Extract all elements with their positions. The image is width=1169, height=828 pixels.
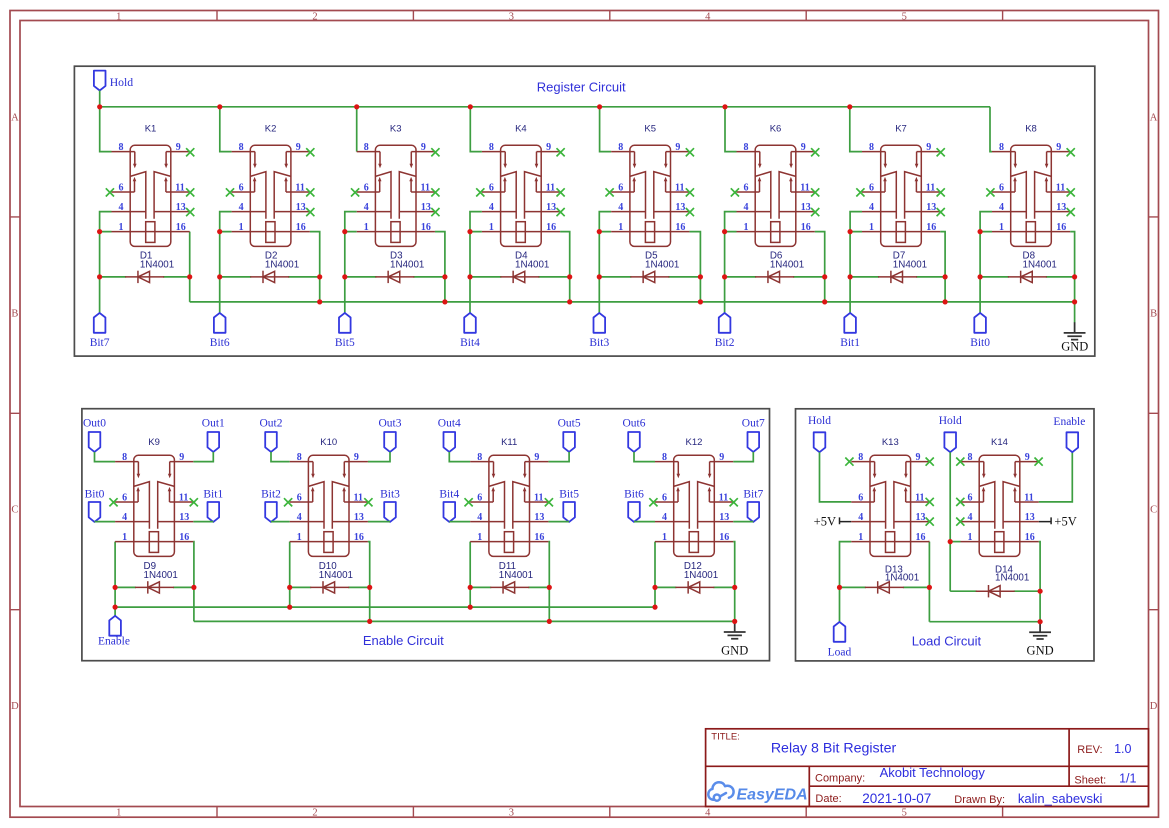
wire K3 pin4-pin1 link: [345, 212, 357, 232]
svg-text:Enable: Enable: [1053, 416, 1085, 428]
svg-text:Out1: Out1: [202, 417, 225, 429]
no-connect X K3 pins 6,9,11,13: [351, 148, 440, 216]
frame column ticks: [217, 11, 1003, 818]
wire rail feed to K1 pin 8: [100, 107, 112, 152]
svg-text:1N4001: 1N4001: [885, 573, 919, 584]
wire rail feed to K8 pin 8: [990, 107, 992, 152]
wire K3 pin16 to D3 cathode and rail: [435, 232, 445, 302]
wire K4 pin16 to D4 cathode and rail: [560, 232, 570, 302]
wire D1 row: [100, 276, 127, 278]
wire Out5 to K11 pin 9: [548, 452, 569, 462]
svg-text:Out0: Out0: [83, 417, 106, 429]
net flag Hold (load middle): [939, 415, 962, 452]
net flag Bit3: [589, 313, 609, 349]
svg-text:Out6: Out6: [623, 417, 646, 429]
wire K13 pin16 to D13 cathode / gnd rail: [928, 542, 930, 622]
junction dots enable gnd rail: [367, 619, 737, 624]
label D2 1N4001: [265, 251, 299, 271]
svg-text:K8: K8: [1025, 124, 1037, 135]
diode D9: [135, 581, 174, 593]
svg-text:2021-10-07: 2021-10-07: [862, 791, 931, 806]
power flag +5V (K13 pin 4): [814, 514, 852, 528]
wire K2 pin1 to D2 anode / Bit6: [219, 232, 221, 313]
wire K4 pin4-pin1 link: [470, 212, 482, 232]
wire D12 row: [655, 586, 676, 588]
wire K13 pin1 to D13 anode / Load flag: [840, 542, 852, 622]
svg-text:Company:: Company:: [815, 772, 865, 784]
svg-text:Out3: Out3: [379, 417, 402, 429]
svg-text:Out5: Out5: [558, 417, 581, 429]
no-connect X K6 pins 6,9,11,13: [731, 148, 820, 216]
wire Bit0 to K9 pin 4: [95, 521, 116, 523]
svg-text:GND: GND: [721, 644, 748, 658]
EasyEDA logo: [708, 782, 807, 803]
junction dots enable rail: [113, 605, 658, 610]
net flag Bit7: [743, 489, 763, 522]
svg-text:1: 1: [116, 808, 121, 819]
register circuit box: [74, 66, 1094, 356]
svg-text:1N4001: 1N4001: [515, 260, 549, 271]
wire Out1 to K9 pin 9: [193, 452, 213, 462]
svg-text:Bit2: Bit2: [261, 489, 281, 501]
wire D4 row: [470, 276, 501, 278]
wire K12 pin16 to D12 cathode / gnd rail: [733, 542, 735, 622]
net flag Bit3: [380, 489, 400, 522]
wire K14 pin16 to D14 cathode / gnd: [1039, 542, 1040, 622]
diode D12: [675, 581, 714, 593]
svg-text:K10: K10: [320, 437, 337, 448]
net flag Enable (enable circuit input): [98, 616, 130, 648]
no-connect X K10 pins 6,11: [284, 498, 373, 506]
diode D10: [310, 581, 349, 593]
svg-text:K3: K3: [390, 124, 402, 135]
wire K6 pin4-pin1 link: [725, 212, 737, 232]
svg-text:K13: K13: [882, 437, 899, 448]
relay K1: [112, 142, 190, 246]
diode D11: [490, 581, 529, 593]
wire K5 pin1 to D5 anode / Bit3: [598, 232, 600, 313]
svg-text:Enable Circuit: Enable Circuit: [363, 633, 444, 648]
wire K8 pin4-pin1 link: [980, 212, 992, 232]
svg-text:Bit2: Bit2: [715, 337, 735, 349]
net flag Bit1: [840, 313, 860, 349]
junction dots register bottom rail: [317, 299, 1077, 304]
wire Bit6 to K12 pin 4: [634, 521, 655, 523]
wire K12 pin1 to D12 anode / enable rail: [654, 542, 656, 608]
power flag +5V (K14 pin 13): [1039, 514, 1077, 528]
relay K8: [992, 142, 1070, 246]
net flag Out0: [83, 417, 106, 452]
wire Hold middle vertical to D14: [949, 452, 951, 591]
label D13 1N4001: [885, 564, 919, 583]
net flag Bit7: [90, 313, 110, 349]
wire K10 pin1 to D10 anode / enable rail: [289, 542, 291, 608]
svg-text:1N4001: 1N4001: [144, 570, 178, 581]
svg-text:REV:: REV:: [1077, 744, 1102, 756]
svg-text:2: 2: [312, 12, 317, 23]
label D12 1N4001: [684, 561, 718, 581]
svg-text:Bit4: Bit4: [460, 337, 480, 349]
svg-text:Hold: Hold: [939, 415, 962, 427]
wire K9 pin1 to D9 anode / enable rail: [114, 542, 116, 608]
label D4 1N4001: [515, 251, 549, 271]
net flag Bit2: [261, 489, 281, 522]
svg-text:EasyEDA: EasyEDA: [737, 786, 808, 803]
svg-text:D: D: [11, 701, 19, 712]
junction dots on hold rail: [97, 104, 852, 109]
no-connect X K1 pins 6,9,11,13: [106, 148, 194, 216]
diode D4: [500, 271, 539, 283]
wire rail feed to K5 pin 8: [600, 107, 612, 152]
svg-text:Register Circuit: Register Circuit: [537, 80, 626, 95]
wire D5 row: [599, 276, 631, 278]
net flag Out4: [438, 417, 461, 452]
wire K8 pin16 to D8 cathode and rail: [1070, 232, 1074, 302]
svg-text:4: 4: [705, 808, 711, 819]
svg-text:Out7: Out7: [742, 417, 765, 429]
label D6 1N4001: [770, 251, 804, 271]
svg-text:1N4001: 1N4001: [645, 260, 679, 271]
label D9 1N4001: [144, 561, 178, 581]
net flag Out3: [379, 417, 402, 452]
wire K11 pin16 to D11 cathode / gnd rail: [547, 542, 550, 622]
svg-text:1N4001: 1N4001: [995, 573, 1029, 584]
net flag Enable (load circuit): [1053, 416, 1085, 452]
svg-text:Bit1: Bit1: [840, 337, 860, 349]
wire Bit2 to K10 pin 4: [271, 521, 290, 523]
net flag Hold (register input): [94, 71, 133, 91]
wire K14 pin1 to Hold column: [950, 541, 960, 543]
svg-text:Out4: Out4: [438, 417, 461, 429]
svg-text:Akobit Technology: Akobit Technology: [880, 765, 986, 780]
wire K5 pin4-pin1 link: [599, 212, 611, 232]
net flag Bit4: [460, 313, 480, 349]
wire Bit5 to K11 pin 13: [548, 521, 569, 523]
diode D8: [1008, 271, 1047, 283]
net flag Bit6: [624, 489, 644, 522]
wire Out3 to K10 pin 9: [368, 452, 390, 462]
junction dots register diode row: [97, 274, 1077, 279]
label D14 1N4001: [995, 564, 1029, 583]
no-connect X K12 pins 6,11: [649, 498, 738, 506]
no-connect X K5 pins 6,9,11,13: [606, 148, 695, 216]
wire rail feed to K7 pin 8: [850, 107, 862, 152]
diode D14: [976, 585, 1015, 597]
relay K12: [655, 452, 733, 556]
no-connect X K2 pins 6,9,11,13: [226, 148, 315, 216]
wire Bit4 to K11 pin 4: [449, 521, 470, 523]
svg-text:1N4001: 1N4001: [265, 260, 299, 271]
wire load gnd rail: [929, 621, 1040, 623]
label D11 1N4001: [499, 561, 533, 581]
ground GND (enable): [721, 621, 748, 657]
svg-text:1.0: 1.0: [1114, 742, 1131, 756]
svg-text:1N4001: 1N4001: [684, 570, 718, 581]
diode D2: [250, 271, 289, 283]
svg-text:1N4001: 1N4001: [1023, 260, 1057, 271]
net flag Out6: [623, 417, 646, 452]
wire K11 pin1 to D11 anode / enable rail: [469, 542, 471, 608]
diode D7: [878, 271, 917, 283]
wire D7 row: [850, 276, 879, 278]
svg-text:1: 1: [116, 12, 121, 23]
relay K14: [961, 452, 1039, 556]
svg-text:C: C: [1150, 505, 1157, 516]
svg-text:Bit3: Bit3: [380, 489, 400, 501]
net flag Bit5: [335, 313, 355, 349]
wire D13 row: [840, 586, 866, 588]
wire K1 pin16 to D1 cathode and rail: [189, 232, 191, 302]
svg-text:1N4001: 1N4001: [140, 260, 174, 271]
svg-text:Load Circuit: Load Circuit: [912, 634, 982, 649]
no-connect X K11 pins 6,11: [465, 498, 554, 506]
net flag Bit0: [970, 313, 990, 349]
wire K3 pin1 to D3 anode / Bit5: [344, 232, 346, 313]
svg-text:1N4001: 1N4001: [390, 260, 424, 271]
svg-text:Bit4: Bit4: [439, 489, 459, 501]
svg-text:A: A: [11, 113, 19, 124]
relay K10: [290, 452, 368, 556]
svg-text:K7: K7: [895, 124, 907, 135]
wire Out0 to K9 pin 8: [95, 452, 116, 462]
svg-text:2: 2: [312, 808, 317, 819]
wire K2 pin16 to D2 cathode and rail: [310, 232, 320, 302]
relay K9: [115, 452, 193, 556]
wire D6 row: [725, 276, 757, 278]
wire D8 row: [980, 276, 1009, 278]
title block dividers: [706, 729, 1149, 807]
net flag Bit1: [203, 489, 223, 522]
diode D3: [375, 271, 414, 283]
wire D9 row: [115, 586, 136, 588]
svg-text:Enable: Enable: [98, 635, 130, 647]
svg-text:1N4001: 1N4001: [319, 570, 353, 581]
diode D6: [755, 271, 794, 283]
ground GND (load): [1027, 622, 1054, 658]
svg-text:B: B: [1150, 309, 1157, 320]
net flag Bit6: [210, 313, 230, 349]
svg-text:Bit0: Bit0: [85, 489, 105, 501]
enable circuit box: [82, 409, 770, 661]
label D7 1N4001: [893, 251, 927, 271]
wire K6 pin1 to D6 anode / Bit2: [724, 232, 726, 313]
wire rail feed to K2 pin 8: [220, 107, 232, 152]
svg-text:A: A: [1150, 113, 1158, 124]
svg-text:TITLE:: TITLE:: [711, 732, 740, 743]
no-connect X K8 pins 6,9,11,13: [986, 148, 1074, 216]
svg-text:K6: K6: [770, 124, 782, 135]
svg-text:Bit1: Bit1: [203, 489, 223, 501]
svg-text:Bit3: Bit3: [589, 337, 609, 349]
wire Out2 to K10 pin 8: [271, 452, 290, 462]
wire K7 pin1 to D7 anode / Bit1: [849, 232, 851, 313]
wire Out7 to K12 pin 9: [733, 452, 753, 462]
diode D13: [865, 581, 904, 593]
svg-text:Bit7: Bit7: [743, 489, 763, 501]
wire K1 pin1 to D1 anode / Bit7: [99, 232, 101, 313]
label D8 1N4001: [1023, 251, 1057, 271]
ground GND (register): [1061, 322, 1088, 353]
title block outline: [706, 729, 1149, 807]
wire K4 pin1 to D4 anode / Bit4: [469, 232, 471, 313]
svg-text:K12: K12: [686, 437, 703, 448]
wire Bit7 to K12 pin 13: [733, 521, 753, 523]
wire K2 pin4-pin1 link: [220, 212, 232, 232]
svg-text:Bit5: Bit5: [335, 337, 355, 349]
net flag Out5: [558, 417, 581, 452]
svg-text:Relay 8 Bit Register: Relay 8 Bit Register: [771, 741, 897, 757]
svg-text:3: 3: [509, 808, 514, 819]
junction dots enable diode row: [113, 585, 738, 590]
junction dots register pin1 column: [97, 229, 983, 234]
svg-text:4: 4: [705, 12, 711, 23]
relay K5: [611, 142, 689, 246]
svg-text:K1: K1: [145, 124, 157, 135]
wire enable rail: [115, 606, 655, 608]
svg-text:GND: GND: [1061, 339, 1088, 353]
label D10 1N4001: [319, 561, 353, 581]
svg-text:Bit6: Bit6: [624, 489, 644, 501]
no-connect X K13 pins 8,9,11,13: [845, 458, 934, 526]
svg-text:+5V: +5V: [814, 514, 836, 528]
relay K13: [851, 452, 929, 556]
svg-text:Load: Load: [828, 647, 852, 659]
wire rail feed to K4 pin 8: [470, 107, 482, 152]
svg-text:C: C: [11, 505, 18, 516]
wire D10 row: [290, 586, 312, 588]
svg-text:K2: K2: [265, 124, 277, 135]
junction dots load circuit: [837, 539, 1043, 624]
wire K5 pin16 to D5 cathode and rail: [689, 232, 700, 302]
wire K10 pin16 to D10 cathode / gnd rail: [368, 542, 370, 622]
no-connect X K7 pins 6,9,11,13: [856, 148, 945, 216]
diode D5: [630, 271, 669, 283]
wire rail feed to K6 pin 8: [725, 107, 737, 152]
wire K7 pin16 to D7 cathode and rail: [940, 232, 945, 302]
svg-text:1N4001: 1N4001: [893, 260, 927, 271]
svg-text:K9: K9: [148, 437, 160, 448]
svg-text:1N4001: 1N4001: [770, 260, 804, 271]
wire bottom GND rail (register): [190, 301, 1075, 303]
svg-text:GND: GND: [1027, 644, 1054, 658]
net flag Bit4: [439, 489, 459, 522]
svg-text:Hold: Hold: [110, 76, 134, 89]
svg-text:Hold: Hold: [808, 415, 831, 427]
wire Bit1 to K9 pin 13: [193, 521, 213, 523]
relay K7: [862, 142, 940, 246]
wire Out6 to K12 pin 8: [634, 452, 655, 462]
svg-text:Sheet:: Sheet:: [1074, 775, 1106, 787]
svg-text:K5: K5: [644, 124, 656, 135]
wire register GND stub: [1074, 302, 1076, 323]
relay K3: [357, 142, 435, 246]
svg-text:3: 3: [509, 12, 514, 23]
net flag Bit0: [85, 489, 105, 522]
no-connect X K4 pins 6,9,11,13: [476, 148, 565, 216]
relay K2: [232, 142, 310, 246]
svg-text:Bit7: Bit7: [90, 337, 110, 349]
net flag Load: [828, 622, 852, 659]
wire D14 row: [950, 590, 977, 592]
wire K14 pin11 to Enable flag: [1039, 452, 1073, 502]
svg-text:B: B: [11, 309, 18, 320]
svg-text:K14: K14: [991, 437, 1008, 448]
wire enable flag stub: [114, 607, 116, 616]
wire Hold to K13 pin 6: [820, 452, 852, 502]
svg-text:D: D: [1150, 701, 1158, 712]
net flag Out2: [260, 417, 283, 452]
no-connect X K9 pins 6,11: [109, 498, 197, 506]
wire rail feed to K3 pin 8: [356, 107, 358, 152]
svg-text:Bit0: Bit0: [970, 337, 990, 349]
svg-text:1N4001: 1N4001: [499, 570, 533, 581]
wire D2 row: [220, 276, 252, 278]
svg-text:kalin_sabevski: kalin_sabevski: [1018, 791, 1103, 806]
svg-text:Date:: Date:: [815, 793, 841, 805]
wire Out4 to K11 pin 8: [449, 452, 470, 462]
wire Hold top rail: [100, 106, 990, 108]
wire D3 row: [345, 276, 377, 278]
load circuit box: [796, 409, 1095, 661]
wire K7 pin4-pin1 link: [850, 212, 862, 232]
wire enable gnd rail: [194, 620, 735, 622]
net flag Bit5: [559, 489, 579, 522]
relay K4: [482, 142, 560, 246]
relay K11: [470, 452, 548, 556]
wire Hold vertical to rail: [99, 91, 101, 107]
svg-text:Drawn By:: Drawn By:: [954, 794, 1005, 806]
net flag Bit2: [715, 313, 735, 349]
wire Bit3 to K10 pin 13: [368, 521, 390, 523]
diode D1: [125, 271, 164, 283]
frame row ticks: [10, 217, 1159, 610]
relay K6: [737, 142, 815, 246]
svg-text:K4: K4: [515, 124, 527, 135]
no-connect X K14 pins 8,6,4,9: [956, 458, 1042, 526]
svg-text:Out2: Out2: [260, 417, 283, 429]
net flag Out7: [742, 417, 765, 452]
label D5 1N4001: [645, 251, 679, 271]
svg-text:5: 5: [902, 808, 907, 819]
label D3 1N4001: [390, 251, 424, 271]
wire D11 row: [470, 586, 491, 588]
svg-text:1/1: 1/1: [1119, 771, 1136, 785]
wire K8 pin1 to D8 anode / Bit0: [979, 232, 981, 313]
label D1 1N4001: [140, 251, 174, 271]
svg-text:Bit6: Bit6: [210, 337, 230, 349]
svg-text:+5V: +5V: [1054, 514, 1076, 528]
svg-text:K11: K11: [501, 437, 517, 448]
wire K6 pin16 to D6 cathode and rail: [815, 232, 825, 302]
net flag Out1: [202, 417, 225, 452]
wire K1 pin4-pin1 link: [100, 212, 112, 232]
svg-text:5: 5: [902, 12, 907, 23]
wire K9 pin16 to D9 cathode / gnd rail: [192, 542, 195, 622]
net flag Hold (load left): [808, 415, 831, 452]
svg-text:Bit5: Bit5: [559, 489, 579, 501]
